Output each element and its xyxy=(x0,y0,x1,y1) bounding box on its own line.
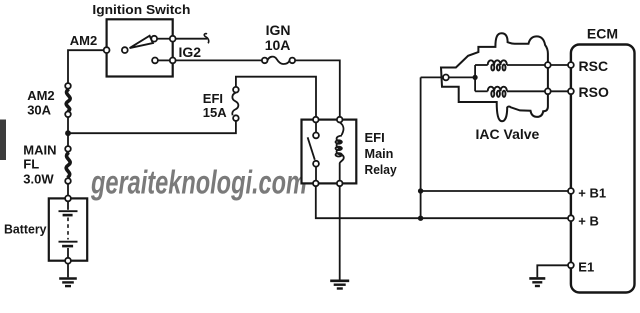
svg-text:IG2: IG2 xyxy=(179,44,202,60)
svg-text:10A: 10A xyxy=(265,37,291,53)
svg-text:15A: 15A xyxy=(203,105,227,120)
svg-text:Ignition Switch: Ignition Switch xyxy=(92,2,190,17)
svg-text:IAC Valve: IAC Valve xyxy=(476,126,540,142)
svg-text:AM2: AM2 xyxy=(70,33,97,48)
svg-text:geraiteknologi.com: geraiteknologi.com xyxy=(90,163,307,200)
svg-text:IGN: IGN xyxy=(266,22,291,38)
svg-text:+ B: + B xyxy=(578,214,599,229)
svg-text:3.0W: 3.0W xyxy=(23,171,54,186)
svg-text:Main: Main xyxy=(365,146,394,161)
svg-text:AM2: AM2 xyxy=(27,88,54,103)
svg-text:ECM: ECM xyxy=(587,25,618,41)
svg-text:EFI: EFI xyxy=(365,130,385,145)
svg-text:EFI: EFI xyxy=(203,91,223,106)
svg-text:+ B1: + B1 xyxy=(578,186,606,201)
svg-text:RSC: RSC xyxy=(579,58,609,74)
svg-text:MAIN: MAIN xyxy=(23,143,56,158)
svg-text:RSO: RSO xyxy=(579,84,609,100)
svg-text:FL: FL xyxy=(23,156,39,171)
svg-text:Relay: Relay xyxy=(365,162,398,177)
svg-text:E1: E1 xyxy=(578,259,594,274)
svg-text:Battery: Battery xyxy=(4,221,47,236)
svg-text:30A: 30A xyxy=(27,103,51,118)
